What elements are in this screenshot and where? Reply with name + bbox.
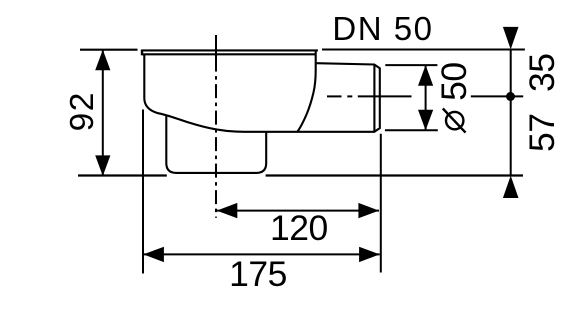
arrowhead dia50 down	[418, 110, 433, 131]
arrowhead chain bottom (outside, pointing up)	[503, 176, 519, 198]
svg-text:175: 175	[229, 254, 287, 294]
arrowhead 175 left	[143, 247, 164, 262]
extension line right (for 120 and 175 dims)	[380, 134, 382, 273]
arrowhead 92 down	[95, 155, 110, 176]
pipe axis center line segments	[327, 95, 342, 97]
pipe axis extension to chain dimension dot	[471, 95, 523, 97]
flange left cap	[141, 50, 143, 56]
arrowhead 92 up	[95, 50, 110, 71]
flange top line	[142, 49, 318, 51]
arrowhead 120 left	[217, 203, 238, 218]
extension line left (for 175 dim)	[142, 110, 144, 274]
chain dimension dot	[506, 92, 515, 101]
center line vertical (body axis) top solid segment	[215, 35, 217, 72]
arrowhead 175 right	[359, 247, 380, 262]
120 dimension line	[217, 210, 379, 212]
body right wall (curved, from flange lip to floor)	[298, 50, 316, 131]
svg-text:120: 120	[270, 208, 328, 248]
ground line (bottom reference) right segment	[266, 174, 523, 176]
body left wall + floor outline	[144, 54, 379, 132]
svg-text:DN 50: DN 50	[332, 10, 433, 47]
wire: extension tick top left (92 dim upper reference)	[80, 49, 138, 51]
arrowhead 120 right	[358, 203, 379, 218]
diameter symbol slash	[443, 109, 466, 133]
flange underside line	[142, 53, 316, 55]
arrowhead chain top (outside, pointing down)	[503, 27, 519, 50]
175 dimension line	[143, 253, 379, 255]
diameter 50 dimension line	[425, 65, 427, 130]
ground line (bottom reference) left segment	[78, 174, 167, 176]
diameter 50 extension line bottom	[385, 129, 438, 131]
center line vertical (body axis) dash-dot segment	[215, 72, 217, 218]
sump (lower tank) outline	[166, 115, 266, 173]
arrowhead dia50 up	[418, 65, 433, 86]
svg-text:35: 35	[522, 53, 562, 92]
DN 50 reference line	[322, 49, 525, 51]
right chain dimension line (35/57)	[510, 50, 512, 176]
svg-text:92: 92	[64, 91, 101, 131]
diameter symbol circle	[446, 112, 463, 129]
92 dimension line	[102, 50, 104, 176]
diameter 50 extension line top	[385, 64, 437, 66]
pipe end inner rim	[373, 65, 375, 132]
svg-text:50: 50	[434, 62, 474, 101]
svg-text:57: 57	[522, 113, 562, 152]
